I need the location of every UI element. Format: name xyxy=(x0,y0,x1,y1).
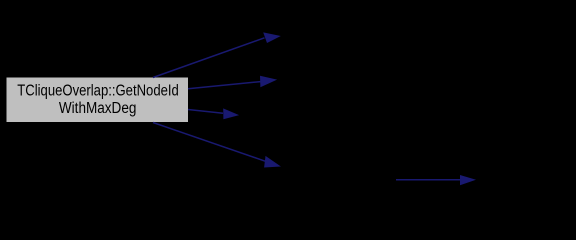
edge arrow 3: short arrow from node right edge, slightly descending xyxy=(188,108,239,119)
svg-text:TCliqueOverlap::GetNodeId: TCliqueOverlap::GetNodeId xyxy=(17,82,179,99)
edge arrow 1: from node top edge to upper-right target xyxy=(153,32,281,77)
edge arrow 2: from node right edge, slightly rising xyxy=(188,76,277,89)
edge arrow 4: from node bottom edge to lower-right target xyxy=(153,123,281,168)
svg-text:WithMaxDeg: WithMaxDeg xyxy=(59,100,136,117)
edge arrow 5: horizontal arrow bottom right xyxy=(396,175,476,185)
node box: TCliqueOverlap::GetNodeIdWithMaxDeg xyxy=(7,78,189,123)
